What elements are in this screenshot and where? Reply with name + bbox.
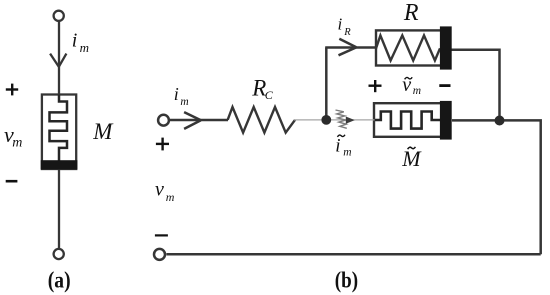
svg-text:m: m	[166, 190, 175, 204]
svg-text:M: M	[401, 146, 422, 171]
svg-text:m: m	[12, 135, 22, 150]
svg-text:R: R	[403, 0, 419, 26]
svg-text:m: m	[80, 40, 89, 55]
svg-text:m: m	[413, 85, 421, 97]
svg-text:i: i	[72, 29, 78, 51]
svg-text:(a): (a)	[48, 267, 71, 293]
svg-text:R: R	[343, 27, 351, 38]
svg-text:m: m	[343, 147, 351, 159]
svg-text:M: M	[92, 119, 114, 144]
svg-text:i: i	[335, 135, 340, 156]
svg-text:(b): (b)	[335, 267, 358, 293]
svg-text:i: i	[174, 84, 179, 104]
svg-text:C: C	[265, 88, 274, 102]
svg-text:i: i	[338, 14, 343, 33]
svg-text:v: v	[155, 178, 164, 200]
svg-text:m: m	[180, 96, 188, 108]
